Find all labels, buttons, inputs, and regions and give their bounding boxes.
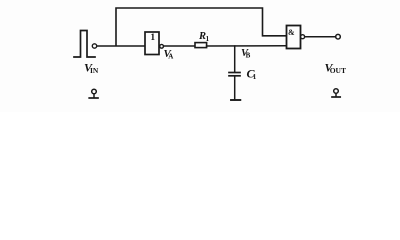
svg-text:&: & [288, 28, 295, 37]
label C1 [247, 67, 257, 82]
capacitor C1 top plate [229, 72, 240, 74]
svg-text:A: A [168, 53, 173, 61]
wire node VB down to capacitor top plate [234, 46, 236, 72]
wire feedback: input node up, across top, down to U2 input A [116, 8, 287, 46]
nand gate U2 output bubble [301, 35, 305, 39]
wire capacitor bottom plate to ground [234, 76, 236, 100]
svg-text:1: 1 [150, 33, 155, 43]
resistor R1 body [195, 43, 207, 48]
inverter U1 output bubble [160, 44, 164, 48]
ground terminal left (circle with stem and bar) [89, 89, 98, 98]
label R1 [198, 31, 210, 43]
nand gate U2 box [287, 26, 301, 49]
svg-text:B: B [246, 51, 251, 59]
ground terminal right (circle with stem and bar) [332, 89, 340, 97]
svg-text:1: 1 [206, 35, 210, 43]
capacitor C1 bottom plate [229, 75, 240, 77]
label VOUT [325, 61, 346, 75]
wire input terminal to inverter [97, 45, 145, 47]
pulse waveform symbol at input [74, 31, 95, 58]
wire node VA: inverter output to resistor [164, 45, 195, 47]
svg-text:IN: IN [90, 66, 99, 75]
wire U2 output to output terminal [305, 36, 336, 38]
label VIN [84, 61, 99, 76]
inverter U1 box [145, 32, 159, 55]
label VA [164, 48, 174, 61]
svg-text:OUT: OUT [330, 66, 346, 75]
wire resistor to NAND U2 input B through node VB [207, 45, 287, 47]
ground bar under C1 [231, 99, 240, 101]
node VIN input terminal [92, 44, 96, 48]
svg-text:1: 1 [253, 73, 257, 81]
node VOUT output terminal [336, 34, 341, 39]
label VB [241, 48, 251, 59]
